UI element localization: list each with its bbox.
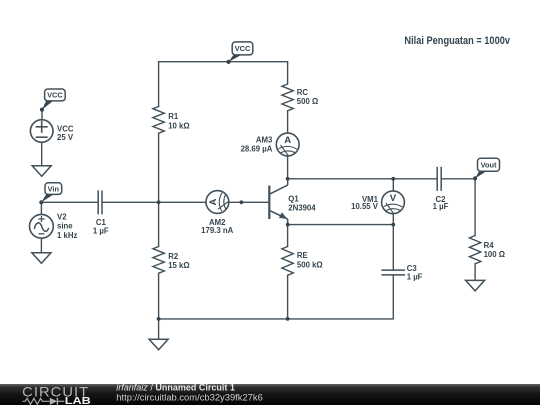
- wire Vin node to V2: [40, 202, 42, 214]
- flag VCC at top rail: [226, 42, 252, 64]
- resistor R4: [469, 236, 480, 264]
- svg-text:500 kΩ: 500 kΩ: [297, 260, 323, 269]
- wire AM3 to collector node: [287, 156, 289, 179]
- node junction base/divider: [157, 200, 161, 204]
- label VM1 value: [351, 195, 379, 211]
- svg-text:15 kΩ: 15 kΩ: [168, 261, 189, 270]
- wire RC top lead: [287, 62, 289, 84]
- wire VCC source flag lead: [41, 110, 43, 120]
- label RE value: [297, 251, 323, 270]
- svg-text:sine: sine: [57, 222, 73, 231]
- label R2 value: [168, 252, 189, 270]
- capacitor C3: [381, 270, 405, 275]
- svg-text:179.3 nA: 179.3 nA: [201, 226, 233, 235]
- wire collector node to C2: [288, 178, 437, 180]
- svg-text:R1: R1: [168, 112, 179, 121]
- wire V2 to ground: [40, 238, 42, 253]
- svg-text:Nilai Penguatan = 1000v: Nilai Penguatan = 1000v: [404, 35, 510, 47]
- wire Vin node to C1: [41, 201, 97, 203]
- flag Vin: [39, 183, 62, 205]
- svg-text:1 µF: 1 µF: [407, 272, 423, 281]
- svg-text:Q1: Q1: [288, 194, 299, 203]
- resistor RC: [282, 84, 293, 111]
- node junction base/AM2: [240, 200, 244, 204]
- logo diode: [50, 398, 64, 405]
- ammeter AM2: [206, 191, 229, 214]
- svg-text:V: V: [390, 193, 397, 204]
- source V2 sine: [30, 214, 54, 238]
- label C1 value: [93, 218, 109, 235]
- svg-text:500 Ω: 500 Ω: [297, 97, 318, 106]
- svg-text:LAB: LAB: [65, 396, 91, 405]
- wire AM2 to base: [229, 201, 268, 203]
- footer bar: [0, 384, 540, 405]
- svg-text:10.55 V: 10.55 V: [351, 202, 379, 211]
- voltage source VCC: [30, 120, 53, 143]
- svg-text:VCC: VCC: [235, 44, 251, 53]
- wire RE bottom lead: [287, 275, 289, 319]
- transistor Q1: [269, 179, 287, 225]
- svg-text:RE: RE: [297, 251, 308, 260]
- svg-text:V2: V2: [57, 212, 67, 221]
- wire base node to R2 top: [158, 202, 160, 246]
- svg-text:http://circuitlab.com/cb32y39f: http://circuitlab.com/cb32y39fk27k6: [116, 392, 262, 402]
- wire R1 bottom to base node: [158, 133, 160, 202]
- wire bottom rail: [159, 318, 394, 320]
- wire C3 top lead: [392, 225, 394, 270]
- wire VCC source to ground: [41, 142, 43, 166]
- wire C2 to Vout node: [442, 178, 475, 180]
- svg-text:1 µF: 1 µF: [433, 202, 449, 211]
- label Q1 value: [288, 194, 316, 212]
- svg-text:10 kΩ: 10 kΩ: [168, 121, 189, 130]
- svg-text:100 Ω: 100 Ω: [484, 250, 505, 259]
- svg-text:Vin: Vin: [48, 184, 60, 193]
- capacitor C1: [98, 190, 102, 214]
- svg-text:R4: R4: [484, 241, 495, 250]
- ground (V2 source): [32, 253, 51, 263]
- svg-text:1 µF: 1 µF: [93, 226, 109, 235]
- wire R1 top lead: [158, 62, 160, 107]
- label R4 value: [484, 241, 505, 259]
- svg-text:2N3904: 2N3904: [288, 203, 316, 212]
- flag Vout: [473, 158, 500, 180]
- label VCC source value: [57, 125, 74, 142]
- ammeter AM3: [276, 133, 299, 156]
- wire R4 to ground: [474, 264, 476, 281]
- node junction VM1 top: [391, 177, 395, 181]
- svg-text:R2: R2: [168, 252, 179, 261]
- wire base from C1 to AM2: [103, 201, 206, 203]
- wire top rail VCC: [159, 61, 288, 63]
- label V2 value: [57, 212, 77, 239]
- wire RE top lead: [287, 225, 289, 247]
- wire Vout node down to R4: [474, 179, 476, 236]
- ground (R4): [466, 280, 485, 291]
- svg-text:A: A: [208, 198, 219, 205]
- label R1 value: [168, 112, 189, 130]
- svg-text:28.69 µA: 28.69 µA: [241, 145, 273, 154]
- resistor RE: [282, 247, 293, 276]
- svg-text:irfanfaiz / Unnamed Circuit 1: irfanfaiz / Unnamed Circuit 1: [116, 383, 235, 393]
- wire ground stem bottom rail: [158, 319, 160, 339]
- label RC value: [297, 88, 318, 106]
- svg-text:1 kHz: 1 kHz: [57, 231, 77, 240]
- resistor R1: [153, 107, 164, 134]
- svg-text:25 V: 25 V: [57, 133, 74, 142]
- svg-text:RC: RC: [297, 88, 309, 97]
- svg-text:A: A: [284, 135, 291, 146]
- flag VCC at source: [40, 89, 65, 112]
- wire C3 bottom lead: [392, 275, 394, 319]
- node junction emitter: [286, 223, 290, 227]
- svg-text:Vout: Vout: [481, 161, 497, 170]
- node junction ground rail: [157, 317, 161, 321]
- ground (VCC source): [32, 166, 51, 177]
- ground (bottom rail): [149, 339, 168, 350]
- resistor R2: [153, 247, 164, 274]
- wire VM1 bottom lead: [392, 214, 394, 225]
- label C3 value: [407, 264, 423, 281]
- node junction VM1 bottom: [391, 223, 395, 227]
- wire RC to AM3: [287, 111, 289, 133]
- label C2 value: [433, 195, 449, 211]
- label AM2 value: [201, 218, 233, 235]
- capacitor C2: [437, 167, 441, 191]
- label AM3 value: [241, 135, 273, 153]
- svg-text:AM3: AM3: [256, 135, 273, 144]
- voltmeter VM1: [382, 191, 405, 214]
- node junction RE bottom: [286, 317, 290, 321]
- wire R2 bottom lead: [158, 273, 160, 319]
- svg-text:VCC: VCC: [47, 91, 63, 100]
- logo resistor squiggle: [23, 398, 50, 404]
- wire VM1 top lead: [392, 179, 394, 191]
- node junction collector: [286, 177, 290, 181]
- wire emitter node to VM1/C3 branch: [288, 224, 394, 226]
